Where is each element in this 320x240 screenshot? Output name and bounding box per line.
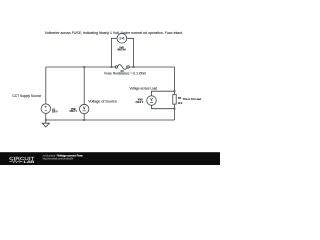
voltmeter VM1 — [117, 33, 127, 43]
wire top rail left segment — [46, 66, 115, 68]
wire VM2 bottom lead — [83, 114, 85, 120]
footer bar — [0, 152, 220, 165]
ground — [42, 120, 49, 127]
resistor R1 — [173, 94, 176, 104]
svg-text:Voltmeter across FUSE, Indicat: Voltmeter across FUSE, Indicating Nearly… — [45, 31, 183, 35]
wire top rail right segment — [129, 66, 174, 68]
wire VM1 left riser — [111, 38, 117, 67]
fuse F1 — [115, 65, 129, 70]
svg-text:219.0 V: 219.0 V — [136, 100, 144, 104]
node VM1 left tap — [111, 66, 113, 68]
svg-text:CCT Supply Source: CCT Supply Source — [12, 94, 41, 98]
node R1 bottom / VM3 — [174, 108, 176, 110]
voltage source V1 — [41, 104, 51, 114]
svg-text:http://circuitlab.com/c/nn8aa5: http://circuitlab.com/c/nn8aa5k — [43, 157, 74, 161]
wire V1 top lead — [45, 67, 47, 104]
wire VM1 right riser — [127, 38, 134, 67]
wire V1 bottom lead — [45, 113, 47, 120]
wire R1 top lead — [174, 67, 176, 94]
svg-text:Voltage of Source: Voltage of Source — [88, 100, 117, 104]
node VM2 bottom tap — [83, 119, 85, 121]
wire bottom rail — [46, 119, 175, 121]
voltmeter VM2 — [80, 104, 89, 113]
node R1 top / VM3 — [174, 90, 176, 92]
wire VM2 top lead — [83, 67, 85, 104]
wire R1 bottom lead — [174, 104, 176, 120]
svg-text:220.0 V: 220.0 V — [70, 109, 78, 113]
node junction dots — [45, 66, 176, 121]
logo wire motif — [9, 160, 22, 163]
svg-text:LAB: LAB — [24, 159, 35, 164]
svg-text:This is Cct Load: This is Cct Load — [183, 97, 201, 101]
svg-text:R1: R1 — [178, 96, 182, 100]
svg-text:22 Ω: 22 Ω — [178, 101, 182, 105]
svg-text:220 V: 220 V — [52, 110, 58, 114]
voltmeter VM3 — [147, 96, 157, 106]
svg-text:Fuse Resistance = 0.1 Ohm: Fuse Resistance = 0.1 Ohm — [104, 72, 146, 76]
node VM1 right tap — [133, 66, 135, 68]
svg-text:Voltage across Load: Voltage across Load — [130, 87, 158, 91]
wire VM3 top loop — [152, 91, 175, 96]
svg-text:995.5 mV: 995.5 mV — [117, 48, 126, 52]
wire VM3 bottom loop — [152, 105, 175, 109]
node VM2 top tap — [83, 66, 85, 68]
node ground tap — [45, 119, 47, 121]
